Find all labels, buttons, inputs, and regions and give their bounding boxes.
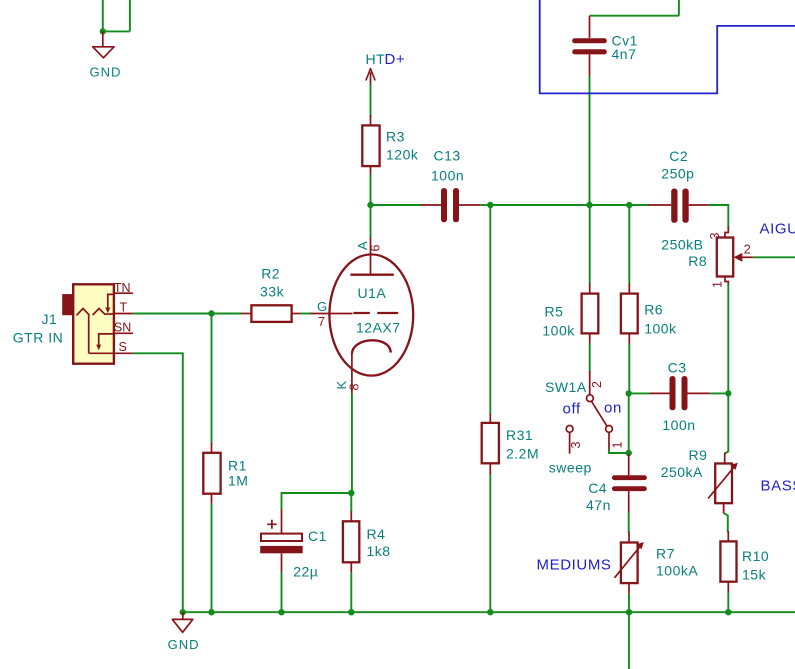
resistor R2 (241, 265, 300, 322)
svg-text:GND: GND (168, 637, 200, 652)
wire Cv1 to node (589, 76, 591, 205)
svg-text:4n7: 4n7 (612, 46, 637, 62)
junction R6 node (626, 202, 632, 208)
svg-text:sweep: sweep (549, 460, 592, 476)
svg-text:250kB: 250kB (661, 237, 703, 253)
svg-text:33k: 33k (260, 284, 285, 300)
svg-text:R7: R7 (656, 546, 675, 562)
wire node to R6 (628, 205, 630, 285)
svg-text:HT: HT (366, 51, 386, 67)
svg-text:R2: R2 (261, 265, 280, 281)
wire rail drop bottom (628, 612, 630, 669)
wire R9 to R10 (724, 513, 728, 533)
svg-text:MEDIUMS: MEDIUMS (537, 556, 612, 573)
svg-text:7: 7 (318, 315, 325, 329)
capacitor C1 polarized (260, 509, 327, 579)
wire R7 to rail (628, 594, 630, 612)
wire R8 to C3 node (727, 284, 729, 394)
svg-text:C1: C1 (308, 528, 327, 544)
svg-text:R10: R10 (742, 548, 769, 564)
junction rail C1 (278, 609, 284, 615)
svg-text:100k: 100k (542, 322, 575, 338)
resistor R6 (621, 283, 677, 343)
wire C3 node right (629, 392, 650, 394)
wire R8 node to R9 (725, 393, 729, 453)
junction rail R10 (725, 609, 731, 615)
wire T node to R1 (211, 314, 213, 445)
svg-text:on: on (604, 399, 622, 416)
svg-text:GND: GND (90, 65, 122, 80)
wire J1 T to node (133, 313, 211, 315)
wire top Cv1 feed horizontal (590, 15, 679, 17)
svg-text:D+: D+ (385, 51, 406, 68)
junction top-left (100, 28, 106, 34)
wire R1 to rail (211, 504, 213, 612)
wire T node to R2 (212, 313, 242, 315)
wire R6 node to C2 (629, 204, 649, 206)
wire R3 to node (370, 175, 372, 206)
svg-text:R31: R31 (506, 427, 533, 443)
svg-text:3: 3 (708, 233, 722, 240)
junction rail R4 (348, 609, 354, 615)
wire cathode node to R4 (350, 493, 352, 512)
svg-text:100n: 100n (431, 168, 464, 184)
svg-text:12AX7: 12AX7 (356, 319, 401, 335)
svg-text:120k: 120k (386, 146, 419, 162)
wire R31 to rail (489, 474, 491, 612)
svg-text:22µ: 22µ (293, 563, 318, 579)
svg-text:R5: R5 (545, 304, 564, 320)
resistor R10 (720, 531, 769, 592)
svg-text:6: 6 (368, 245, 382, 252)
svg-text:SN: SN (114, 320, 131, 334)
resistor R3 (362, 115, 419, 175)
wire C4 to R7 (628, 512, 630, 533)
junction rail R1 (208, 609, 214, 615)
junction C4 node (626, 450, 632, 456)
ground GND top-left (90, 31, 122, 79)
svg-text:1k8: 1k8 (367, 543, 391, 559)
svg-text:1M: 1M (228, 472, 248, 488)
wire R8 wiper out (753, 256, 795, 258)
power symbol HTD+ arrow (366, 69, 375, 86)
svg-text:R1: R1 (228, 457, 247, 473)
svg-text:250p: 250p (661, 166, 694, 182)
svg-text:1: 1 (611, 442, 625, 449)
svg-text:47n: 47n (586, 497, 611, 513)
resistor R1 (203, 443, 248, 504)
potentiometer R9 (661, 447, 738, 513)
junction R3 node (367, 202, 373, 208)
svg-text:C13: C13 (434, 147, 461, 163)
wire R10 to rail (727, 592, 729, 612)
svg-text:2: 2 (744, 243, 751, 257)
svg-text:100k: 100k (644, 320, 677, 336)
wire R6 to C3 node (628, 344, 630, 394)
svg-text:SW1A: SW1A (545, 379, 587, 395)
svg-text:2: 2 (590, 381, 604, 388)
wire node to R5 (589, 205, 591, 285)
svg-text:R3: R3 (386, 128, 405, 144)
wire C1 to rail (281, 573, 283, 613)
svg-text:100kA: 100kA (656, 563, 698, 579)
svg-text:R4: R4 (367, 526, 386, 542)
wire top-left horizontal (103, 30, 130, 32)
svg-text:TN: TN (114, 281, 131, 295)
wire R5 to switch (589, 344, 591, 373)
capacitor C4 (586, 454, 647, 513)
svg-text:R6: R6 (644, 302, 663, 318)
wire top-left vertical 1 (102, 0, 104, 31)
resistor R5 (542, 283, 598, 343)
blue polyline note box (540, 0, 795, 93)
power HT D+ label (366, 51, 406, 68)
svg-text:U1A: U1A (358, 285, 387, 301)
wire C3 node down to C4 node (628, 393, 630, 453)
wire C3 to right column (710, 392, 729, 394)
wire cathode node to C1 (282, 493, 352, 510)
potentiometer R7 (615, 532, 699, 594)
svg-text:AIGUS: AIGUS (760, 220, 795, 237)
svg-text:2.2M: 2.2M (506, 446, 539, 462)
svg-text:1: 1 (711, 281, 725, 288)
wire cathode down (351, 394, 353, 494)
capacitor C2 (648, 148, 709, 223)
wire anode node down (inside handled) (370, 205, 372, 238)
resistor R31 (482, 413, 539, 474)
svg-text:3: 3 (569, 442, 583, 449)
svg-text:R8: R8 (688, 253, 707, 269)
triode U1A 12AX7 (311, 237, 414, 394)
wire J1 S down (133, 353, 183, 612)
switch SW1A (545, 371, 625, 476)
junction C3 left node (626, 390, 632, 396)
svg-text:R9: R9 (689, 447, 708, 463)
wire switch pin1 to C4 node (609, 450, 629, 454)
svg-text:off: off (563, 400, 581, 417)
resistor R4 (343, 511, 391, 573)
wire top-left vertical 2 (129, 0, 131, 31)
svg-text:C2: C2 (669, 148, 688, 164)
wire ground rail (183, 611, 795, 613)
capacitor C3 (650, 360, 710, 434)
svg-text:250kA: 250kA (661, 464, 703, 480)
junction Cv1/R5 node (586, 202, 592, 208)
svg-text:100n: 100n (662, 417, 695, 433)
wire HT to R3 (370, 84, 372, 117)
svg-text:G: G (317, 299, 327, 314)
svg-text:T: T (120, 301, 128, 315)
junction T node (208, 310, 214, 316)
ground GND bottom (168, 612, 200, 652)
wire R4 to rail (350, 573, 352, 613)
connector J1 GTR IN (13, 281, 133, 364)
svg-text:GTR IN: GTR IN (13, 329, 63, 345)
svg-text:15k: 15k (742, 566, 767, 582)
svg-text:8: 8 (348, 384, 362, 391)
svg-text:S: S (119, 340, 127, 354)
junction rail R31 (487, 609, 493, 615)
wire C2 to R8 (709, 205, 729, 228)
junction rail S (180, 609, 186, 615)
wire main node row (371, 204, 422, 206)
junction rail R7 (626, 609, 632, 615)
potentiometer R8 (661, 227, 753, 289)
wire node to R31 (489, 205, 491, 414)
wire C13 to R31 node (481, 204, 491, 206)
svg-text:C3: C3 (668, 360, 687, 376)
wire Cv1 node to R6 node (590, 204, 630, 206)
wire top Cv1 feed vertical (678, 0, 680, 16)
svg-text:C4: C4 (588, 480, 607, 496)
wire R2 to grid (300, 313, 311, 315)
capacitor C13 (420, 147, 480, 222)
svg-text:BASS: BASS (761, 477, 795, 494)
capacitor Cv1 (572, 16, 638, 76)
junction cathode node (348, 490, 354, 496)
wire R31 node to Cv1 node (490, 204, 589, 206)
junction R31 node (487, 202, 493, 208)
svg-text:J1: J1 (42, 311, 58, 327)
junction C3 right node (725, 390, 731, 396)
